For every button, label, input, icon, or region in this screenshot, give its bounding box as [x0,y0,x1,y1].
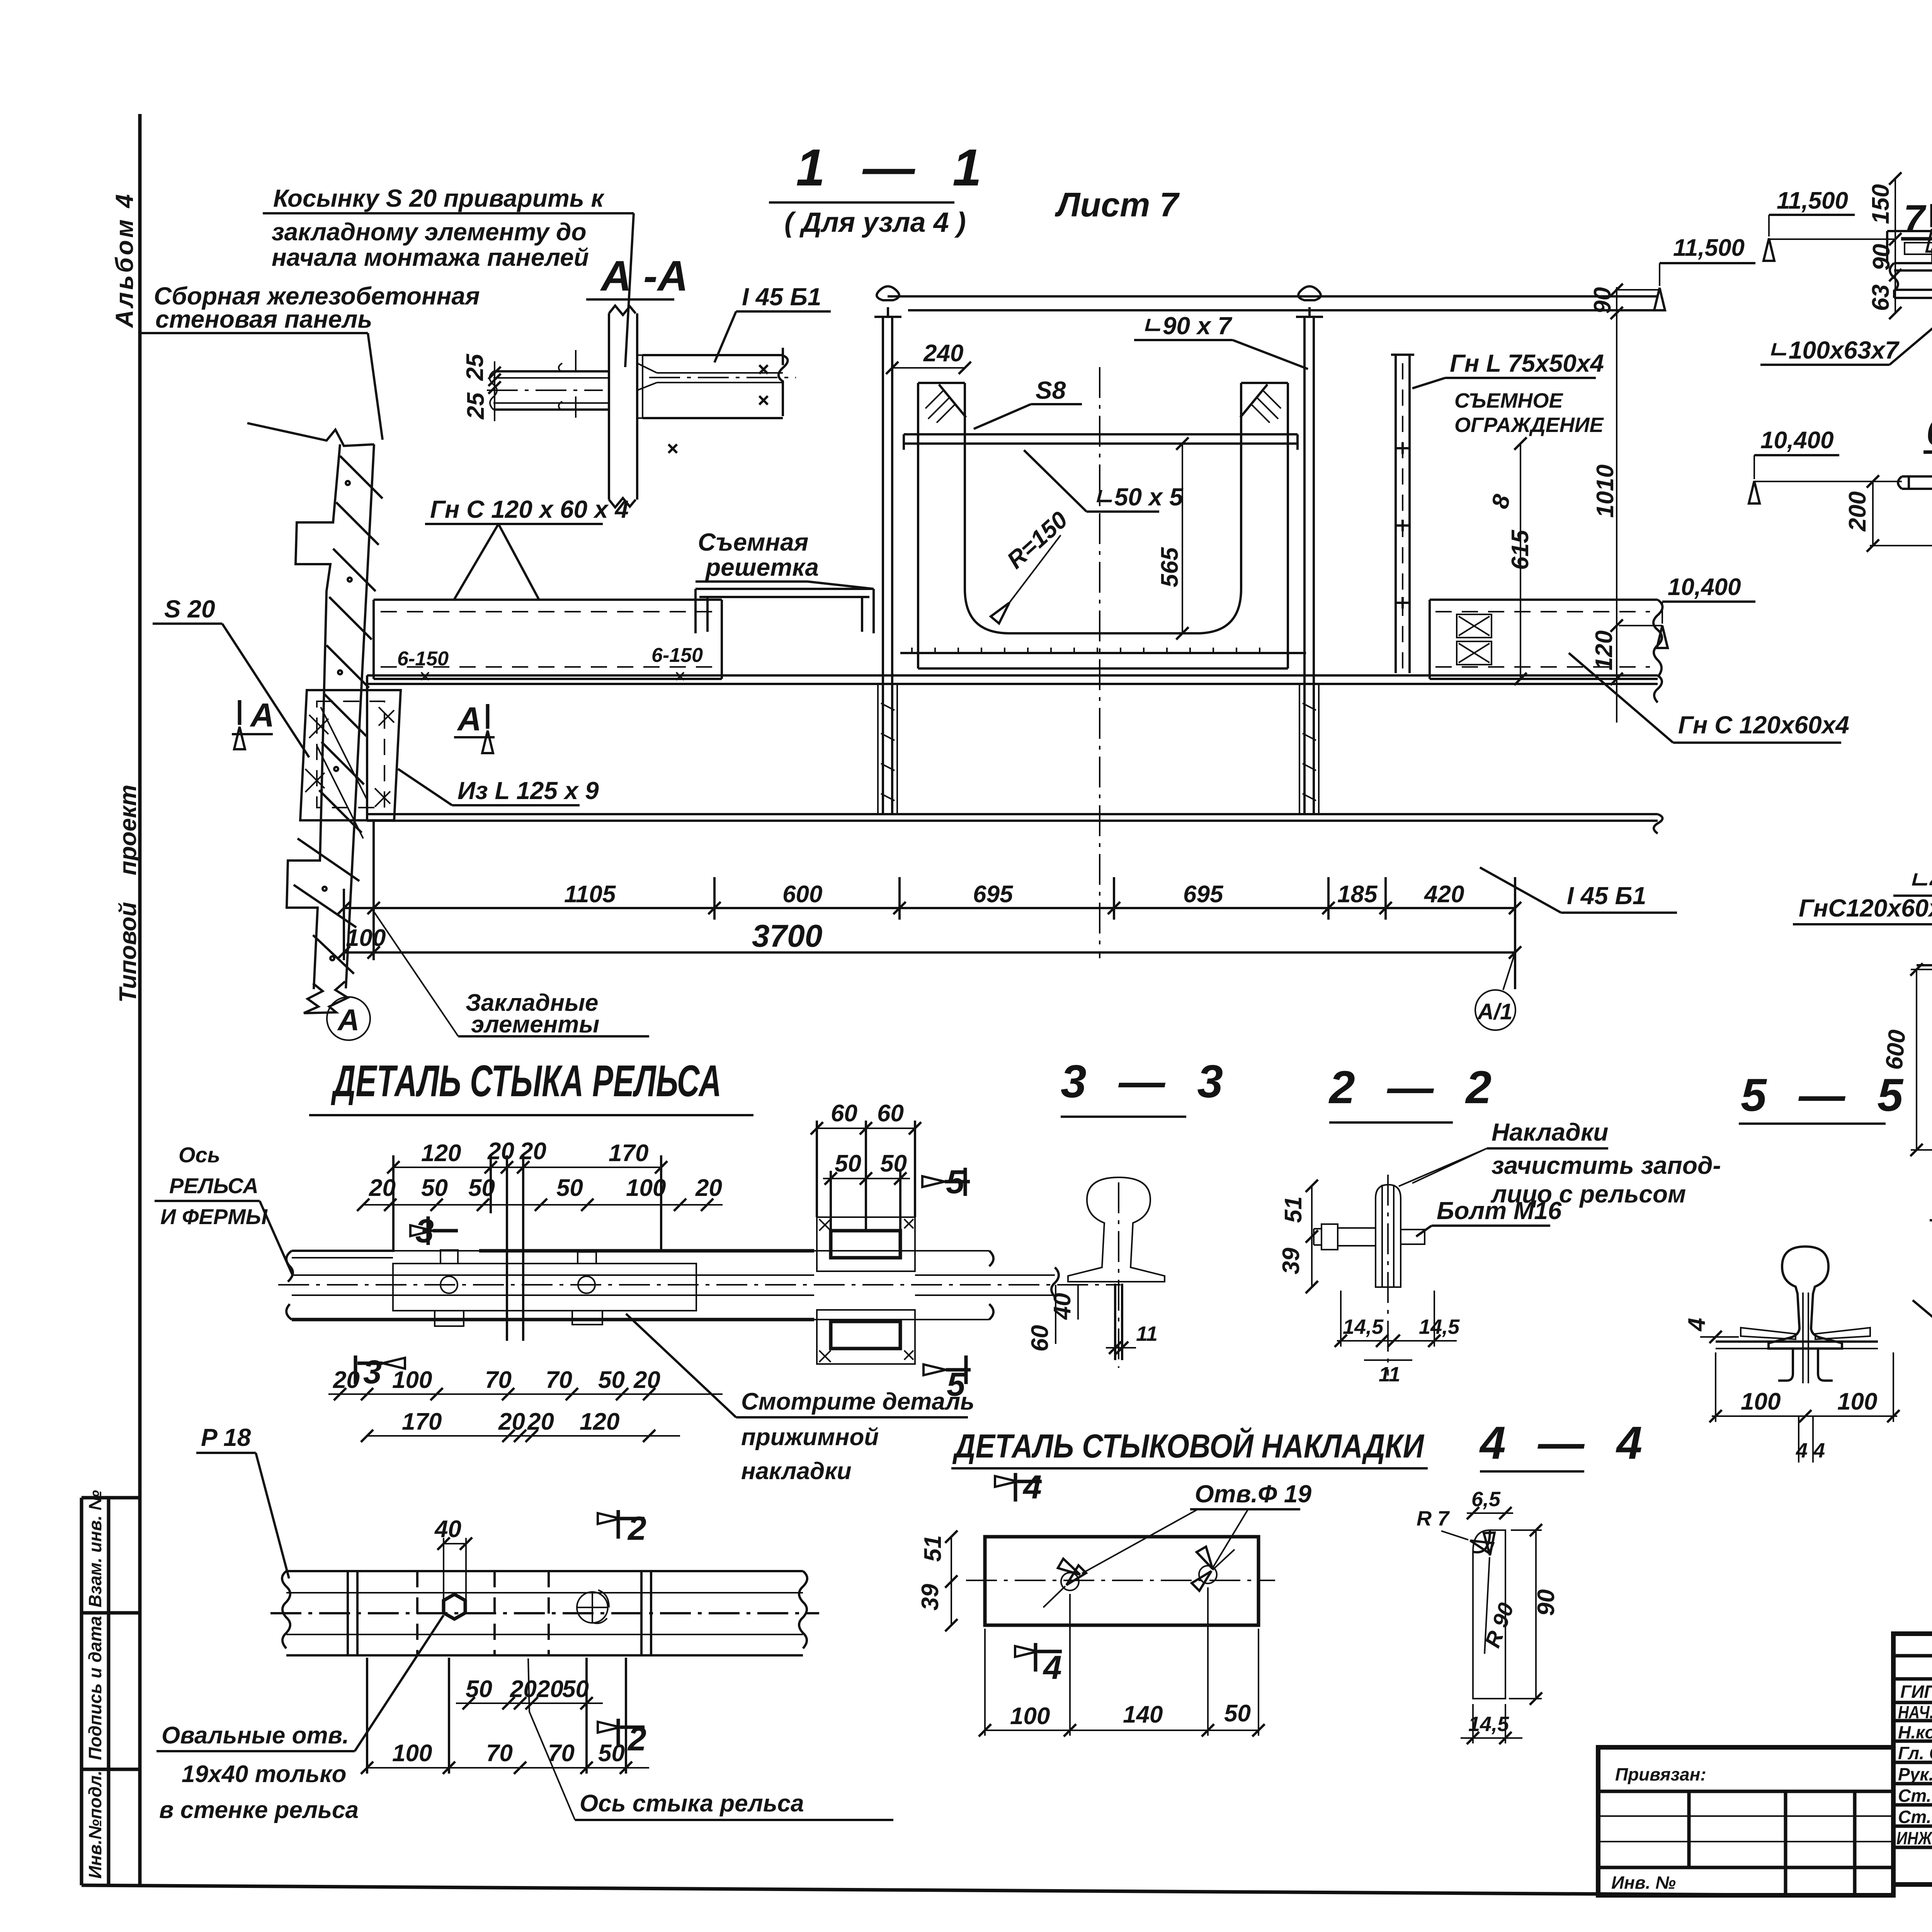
svg-text:50: 50 [1224,1700,1251,1727]
svg-text:63: 63 [1867,284,1894,311]
svg-text:накладки: накладки [741,1458,852,1485]
svg-text:ГИП: ГИП [1900,1682,1932,1702]
svg-text:50: 50 [835,1150,861,1177]
svg-text:Инв. №: Инв. № [1611,1872,1676,1893]
svg-text:Накладки: Накладки [1492,1118,1608,1146]
svg-text:5 — 5: 5 — 5 [1741,1069,1913,1121]
svg-text:6-150: 6-150 [651,644,703,667]
svg-text:прижимной: прижимной [741,1424,879,1451]
svg-text:Н.контр.: Н.контр. [1898,1722,1932,1742]
svg-text:11: 11 [1136,1322,1158,1345]
svg-text:1 — 1: 1 — 1 [796,138,993,197]
svg-text:начала монтажа панелей: начала монтажа панелей [272,243,589,271]
svg-text:10,400: 10,400 [1668,574,1741,600]
svg-text:420: 420 [1423,881,1464,908]
svg-text:ㄴ50 х 5: ㄴ50 х 5 [1092,483,1184,511]
svg-text:ㄴ100х63х7: ㄴ100х63х7 [1766,336,1900,364]
svg-text:в стенке рельса: в стенке рельса [159,1797,359,1823]
svg-text:Подпись и дата: Подпись и дата [85,1616,105,1760]
svg-text:ИНЖЕНЕР: ИНЖЕНЕР [1896,1828,1932,1848]
svg-text:S8: S8 [1036,376,1066,404]
svg-text:Альбом 4: Альбом 4 [111,192,138,328]
svg-text:R 7: R 7 [1417,1507,1450,1530]
svg-text:Гн С 120х60х4: Гн С 120х60х4 [1678,711,1849,739]
svg-text:3700: 3700 [752,918,822,954]
svg-text:50: 50 [466,1676,492,1702]
svg-text:1010: 1010 [1592,464,1619,518]
svg-text:100: 100 [392,1367,432,1393]
svg-text:100: 100 [392,1740,432,1767]
svg-text:695: 695 [973,881,1014,908]
svg-text:Типовой проект: Типовой проект [115,785,141,1003]
svg-text:Смотрите деталь: Смотрите деталь [741,1388,975,1415]
svg-text:10,400: 10,400 [1760,427,1834,454]
svg-text:РЕЛЬСА: РЕЛЬСА [169,1173,259,1198]
svg-text:Из L 125 х 9: Из L 125 х 9 [457,777,599,804]
svg-text:170: 170 [402,1408,442,1435]
svg-text:40: 40 [1049,1293,1076,1320]
svg-text:100: 100 [1741,1388,1781,1415]
svg-text:39: 39 [917,1584,944,1611]
svg-text:20: 20 [369,1175,396,1201]
svg-text:20: 20 [695,1175,722,1201]
svg-text:7: 7 [1903,197,1927,240]
svg-text:14,5: 14,5 [1343,1315,1384,1338]
svg-text:185: 185 [1337,881,1378,908]
svg-text:А: А [337,1003,359,1037]
svg-text:100: 100 [626,1175,666,1201]
svg-text:100: 100 [1837,1388,1877,1415]
svg-text:Косынку S 20 приварить к: Косынку S 20 приварить к [273,184,605,212]
svg-text:S 20: S 20 [164,595,215,623]
svg-text:70: 70 [486,1740,513,1767]
svg-text:170: 170 [609,1140,648,1167]
svg-text:I 45 Б1: I 45 Б1 [1567,882,1646,910]
svg-text:СЪЕМНОЕ: СЪЕМНОЕ [1454,389,1563,412]
svg-text:2 — 2: 2 — 2 [1328,1061,1501,1113]
svg-text:I 45 Б1: I 45 Б1 [742,283,821,311]
svg-text:11: 11 [1379,1363,1400,1386]
svg-text:50: 50 [880,1150,907,1177]
svg-text:20: 20 [498,1408,525,1435]
svg-text:11,500: 11,500 [1777,187,1848,214]
svg-text:4 4: 4 4 [1796,1439,1825,1462]
svg-text:Отв.Ф 19: Отв.Ф 19 [1195,1480,1311,1508]
svg-text:Гл. СПЕЦ.: Гл. СПЕЦ. [1898,1743,1932,1763]
svg-text:90: 90 [1533,1589,1560,1616]
svg-text:50: 50 [421,1175,448,1201]
svg-text:695: 695 [1183,881,1224,908]
svg-text:А -А: А -А [600,252,688,300]
svg-text:ГнС120х60х4: ГнС120х60х4 [1799,894,1932,922]
svg-text:50: 50 [598,1740,625,1767]
svg-text:Ст. инж.: Ст. инж. [1898,1786,1932,1806]
svg-text:Ст. инж.: Ст. инж. [1898,1807,1932,1827]
svg-text:90: 90 [1589,287,1616,314]
svg-text:39: 39 [1278,1248,1304,1274]
svg-text:565: 565 [1156,547,1183,587]
svg-text:20: 20 [633,1367,660,1393]
svg-text:240: 240 [923,340,963,367]
svg-text:4: 4 [1684,1318,1710,1332]
svg-text:3: 3 [363,1354,382,1391]
svg-text:60: 60 [831,1100,857,1127]
svg-text:4: 4 [1022,1469,1042,1506]
svg-text:70: 70 [485,1367,512,1393]
svg-text:Болт М16: Болт М16 [1437,1197,1562,1225]
svg-text:решетка: решетка [705,553,819,581]
svg-text:50: 50 [556,1175,583,1201]
svg-text:закладному элементу до: закладному элементу до [272,218,587,246]
svg-text:Гн L 75х50х4: Гн L 75х50х4 [1450,349,1604,377]
svg-text:( Для узла 4 ): ( Для узла 4 ) [784,207,966,238]
svg-text:150: 150 [1867,184,1894,224]
svg-text:А: А [457,701,481,738]
svg-text:70: 70 [546,1367,572,1393]
svg-text:51: 51 [1280,1196,1307,1223]
svg-text:А: А [250,697,274,734]
svg-text:Ось: Ось [179,1143,220,1167]
svg-text:70: 70 [548,1740,575,1767]
svg-text:25: 25 [463,392,489,420]
svg-text:6,5: 6,5 [1471,1488,1501,1511]
svg-text:Съемная: Съемная [698,528,808,556]
svg-text:25: 25 [462,354,488,381]
svg-text:1105: 1105 [564,881,616,908]
svg-text:2: 2 [627,1510,646,1547]
svg-text:P 18: P 18 [201,1423,251,1451]
svg-text:Лист 7: Лист 7 [1054,185,1180,224]
svg-text:ОГРАЖДЕНИЕ: ОГРАЖДЕНИЕ [1454,413,1604,437]
svg-text:20: 20 [527,1408,554,1435]
svg-text:50: 50 [598,1367,625,1393]
svg-text:ДЕТАЛЬ СТЫКА РЕЛЬСА: ДЕТАЛЬ СТЫКА РЕЛЬСА [331,1056,721,1106]
svg-text:НАЧ. ОТД.: НАЧ. ОТД. [1898,1702,1932,1722]
svg-text:140: 140 [1123,1701,1163,1728]
svg-text:200: 200 [1844,492,1871,532]
svg-text:Овальные отв.: Овальные отв. [162,1722,349,1749]
svg-text:50: 50 [562,1676,589,1702]
svg-text:100: 100 [346,925,386,951]
svg-text:зачистить запод-: зачистить запод- [1492,1151,1721,1179]
svg-text:Рук. гр.: Рук. гр. [1898,1764,1932,1784]
svg-text:8: 8 [1486,492,1516,512]
svg-text:60: 60 [877,1100,904,1127]
svg-text:14,5: 14,5 [1468,1713,1509,1736]
svg-text:Ось стыка рельса: Ось стыка рельса [580,1790,804,1817]
svg-text:3 — 3: 3 — 3 [1061,1056,1233,1107]
svg-text:51: 51 [920,1535,946,1562]
svg-text:120: 120 [580,1408,619,1435]
svg-text:элементы: элементы [471,1011,599,1038]
svg-text:6: 6 [1926,410,1932,454]
svg-text:ДЕТАЛЬ СТЫКОВОЙ НАКЛАДКИ: ДЕТАЛЬ СТЫКОВОЙ НАКЛАДКИ [952,1427,1425,1465]
svg-text:60: 60 [1027,1325,1053,1352]
svg-text:100: 100 [1010,1703,1050,1730]
svg-text:Гн С 120 х 60 х 4: Гн С 120 х 60 х 4 [430,495,629,523]
svg-text:4 — 4: 4 — 4 [1479,1417,1652,1469]
svg-text:4: 4 [1043,1649,1062,1686]
svg-text:600: 600 [1881,1029,1911,1071]
svg-text:Взам. инв. №: Взам. инв. № [85,1490,105,1607]
svg-text:стеновая панель: стеновая панель [155,305,372,333]
svg-text:600: 600 [782,881,822,908]
svg-text:ㄴ90 х 7: ㄴ90 х 7 [1140,312,1233,340]
svg-text:ㄴ40х4: ㄴ40х4 [1907,866,1932,894]
svg-text:А/1: А/1 [1477,999,1512,1024]
svg-text:6-150: 6-150 [397,648,449,670]
svg-text:120: 120 [421,1140,461,1167]
svg-text:Инв.№подл.: Инв.№подл. [85,1770,105,1879]
svg-text:R=150: R=150 [1002,507,1073,574]
svg-text:И ФЕРМЫ: И ФЕРМЫ [160,1204,268,1229]
svg-text:11,500: 11,500 [1673,235,1745,261]
svg-text:120: 120 [1591,631,1617,670]
svg-text:Привязан:: Привязан: [1615,1764,1706,1784]
svg-text:19х40 только: 19х40 только [182,1761,347,1787]
